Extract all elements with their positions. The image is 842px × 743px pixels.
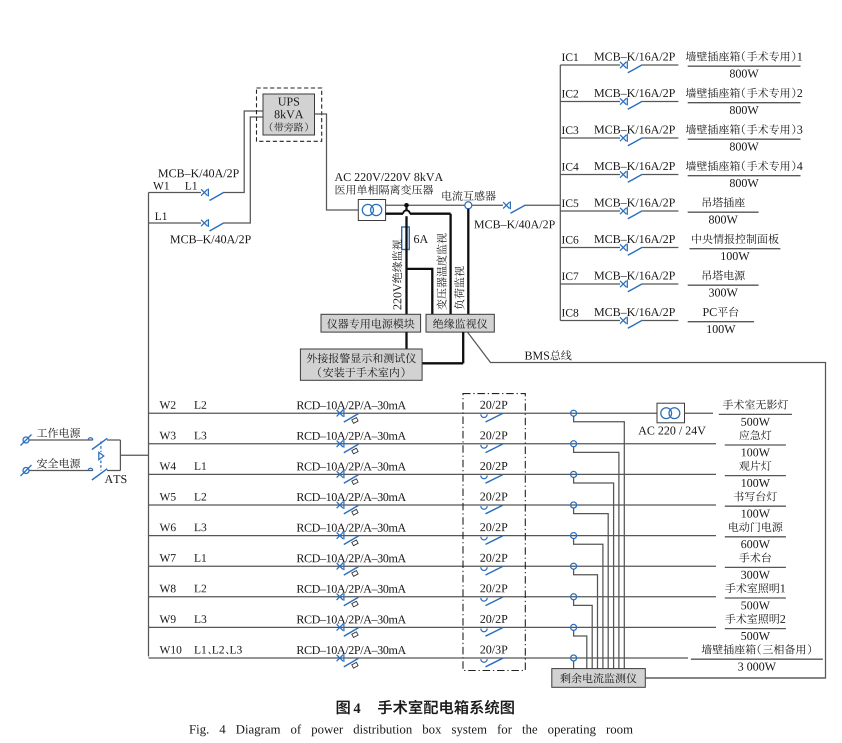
- breaker W3 RCD symbol: [337, 440, 359, 454]
- label RCD-10A/2P/A-30mA (W4): [297, 462, 406, 470]
- load IC2 800W name: [686, 88, 802, 98]
- load W4 power: [742, 479, 770, 487]
- wire IC1 branch: [560, 64, 678, 66]
- load IC8 underline: [688, 321, 754, 323]
- label L1 (W1 phase): [185, 182, 197, 190]
- wire W8 branch: [149, 596, 717, 598]
- breaker Q3 MCB-K/40A/2P symbol: [503, 201, 525, 213]
- label W7: [160, 554, 176, 562]
- load W10 3 000W name: [702, 644, 811, 654]
- breaker W9 RCD symbol: [337, 624, 359, 638]
- terminal safety power source: [21, 465, 32, 476]
- wire alarm box to monitor: [422, 332, 463, 363]
- wire BMS bus: [468, 332, 826, 678]
- label ATS: [105, 475, 127, 483]
- breaker IC3 MCB-K/16A/2P symbol: [620, 134, 642, 146]
- label RCD-10A/2P/A-30mA (W3): [297, 432, 406, 440]
- load IC7 power: [709, 289, 738, 297]
- load W4 100W name: [739, 461, 771, 471]
- breaker IC5 MCB-K/16A/2P symbol: [620, 207, 642, 219]
- label AC 220 / 24V: [638, 427, 705, 435]
- load IC3 800W name: [686, 124, 803, 134]
- load IC4 underline: [688, 175, 801, 177]
- load IC6 underline: [690, 248, 781, 250]
- external alarm display box: [300, 349, 422, 380]
- label AC 220V/220V 8kVA: [335, 173, 443, 182]
- node monitor tap W6: [571, 533, 577, 539]
- label MCB-K/40A/2P (L1): [170, 235, 251, 243]
- label an quan dian yuan (safety power): [37, 458, 80, 468]
- label W2: [160, 401, 176, 409]
- fuse F1 6A body: [402, 227, 410, 250]
- wire IC4 branch: [560, 174, 678, 176]
- load IC3 underline: [688, 138, 801, 140]
- wire monitor to BMS riser: [645, 677, 825, 679]
- label contactor (W2): [480, 401, 507, 409]
- wire 220V insulation monitor vertical: [405, 208, 407, 315]
- transformer T2 AC220/24V box: [657, 403, 685, 423]
- load W10 underline: [691, 658, 823, 660]
- label contactor (W6): [480, 523, 507, 531]
- wire transformer temperature monitor vertical: [449, 214, 451, 315]
- load IC6 power: [721, 252, 749, 260]
- label IC5: [562, 199, 578, 207]
- load W7 power: [741, 571, 770, 579]
- node monitor tap W9: [571, 624, 577, 630]
- label W4: [160, 462, 176, 470]
- label W3: [160, 432, 176, 440]
- load W3 100W name: [739, 430, 771, 440]
- label an zhuang yu shou shu shi nei: [318, 367, 404, 377]
- contactor W9 20/2P symbol: [481, 628, 503, 637]
- label W5: [160, 493, 176, 501]
- label sheng yu dian liu jian ce yi: [560, 673, 636, 683]
- label IC3: [562, 126, 578, 134]
- label W9: [160, 615, 176, 623]
- load IC1 underline: [688, 65, 801, 67]
- label contactor (W8): [480, 584, 507, 592]
- breaker IC4 MCB-K/16A/2P symbol: [620, 171, 642, 183]
- label RCD-10A/2P/A-30mA (W8): [297, 585, 406, 593]
- breaker Q2 MCB-K/40A/2P symbol: [201, 219, 224, 231]
- wire IC3 branch: [560, 137, 678, 139]
- label contactor (W7): [480, 554, 507, 562]
- terminal working power source: [21, 435, 32, 446]
- wire IC7 branch: [560, 283, 678, 285]
- load IC2 underline: [688, 102, 801, 104]
- load W5 power: [742, 510, 770, 518]
- load IC1 800W name: [686, 51, 802, 61]
- label IC1: [562, 53, 578, 61]
- load IC5 power: [709, 216, 738, 224]
- label phase L1、L2、L3 (W10): [194, 646, 241, 654]
- wire W6 branch: [149, 535, 717, 537]
- caption figure 4 english: [189, 724, 632, 736]
- label W6: [160, 523, 176, 531]
- label contactor (W10): [480, 646, 507, 654]
- wire UPS output to isolation transformer: [315, 114, 359, 210]
- load IC1 power: [730, 70, 759, 78]
- load IC7 300W name: [703, 270, 745, 280]
- label (dai pang lu) bypass: [270, 122, 308, 131]
- load IC3 power: [730, 143, 759, 151]
- label RCD-10A/2P/A-30mA (W10): [297, 646, 406, 654]
- load IC5 underline: [688, 211, 759, 213]
- breaker W8 RCD symbol: [337, 593, 359, 607]
- breaker W5 RCD symbol: [337, 501, 359, 515]
- load IC6 100W name: [692, 234, 779, 244]
- caption figure 4 chinese: [337, 700, 514, 715]
- label IC6: [562, 236, 578, 244]
- load W10 power: [738, 663, 776, 671]
- label contactor (W3): [480, 431, 507, 439]
- UPS U1 8kVA box: [263, 94, 315, 135]
- load W2 power: [741, 418, 770, 426]
- wire ATS output to bus: [120, 454, 148, 456]
- label MCB-K/16A/2P (IC2): [594, 89, 675, 97]
- contactor W6 20/2P symbol: [481, 536, 503, 545]
- label wai jie bao jing xian shi he ce shi yi: [307, 353, 416, 363]
- load IC8 power: [707, 325, 735, 333]
- wire W1 branch from bus to breaker: [149, 192, 202, 194]
- load W6 underline: [725, 536, 786, 538]
- node monitor tap W10: [571, 655, 577, 661]
- label RCD-10A/2P/A-30mA (W7): [297, 554, 406, 562]
- label phase L1 (W4): [194, 462, 206, 470]
- ATS switch contact 1: [88, 438, 107, 450]
- ATS output bracket: [107, 440, 120, 471]
- contactor W10 20/2P symbol: [481, 658, 503, 667]
- contactor W3 20/2P symbol: [481, 444, 503, 453]
- load W5 100W name: [734, 491, 777, 501]
- label dian liu hu gan qi (current transformer): [442, 191, 495, 201]
- label fu he jian shi (rotated): [454, 266, 464, 309]
- wire module to alarm box: [405, 332, 407, 349]
- label MCB-K/16A/2P (IC3): [594, 126, 675, 134]
- wire W10 branch: [149, 657, 689, 659]
- label contactor (W9): [480, 615, 507, 623]
- load W4 underline: [725, 475, 786, 477]
- load IC8 100W name: [703, 307, 738, 317]
- breaker IC8 MCB-K/16A/2P symbol: [620, 317, 642, 329]
- label phase L3 (W3): [194, 432, 206, 440]
- load IC7 underline: [688, 284, 759, 286]
- ATS linkage: [99, 442, 104, 471]
- load W7 300W name: [739, 552, 771, 562]
- load W2 500W name: [723, 399, 788, 409]
- label RCD-10A/2P/A-30mA (W5): [297, 493, 406, 501]
- label phase L1 (W7): [194, 554, 206, 562]
- node monitor tap W3: [571, 441, 577, 447]
- label W10: [160, 646, 182, 654]
- label MCB-K/16A/2P (IC7): [594, 272, 675, 280]
- breaker IC1 MCB-K/16A/2P symbol: [620, 61, 642, 73]
- load IC4 800W name: [686, 161, 803, 171]
- label bian ya qi wen du jian shi (rotated): [436, 233, 446, 309]
- label jue yuan jian shi yi: [433, 319, 487, 329]
- load W6 power: [741, 540, 770, 548]
- label phase L2 (W8): [194, 585, 206, 593]
- breaker W2 RCD symbol: [337, 409, 359, 423]
- node monitor tap W4: [571, 471, 577, 477]
- label RCD-10A/2P/A-30mA (W9): [297, 615, 406, 623]
- breaker W10 RCD symbol: [337, 654, 359, 668]
- wire W5 branch: [149, 504, 717, 506]
- breaker IC2 MCB-K/16A/2P symbol: [620, 98, 642, 110]
- wire T2 to load: [685, 412, 714, 414]
- label MCB-K/16A/2P (IC8): [594, 308, 675, 316]
- node monitor tap W8: [571, 594, 577, 600]
- load W9 underline: [725, 628, 786, 630]
- load W8 500W name: [725, 583, 785, 593]
- label MCB-K/16A/2P (IC1): [594, 53, 675, 61]
- load W9 500W name: [725, 614, 785, 624]
- contactor W4 20/2P symbol: [481, 475, 503, 484]
- load IC4 power: [730, 179, 759, 187]
- label MCB-K/40A/2P (main): [474, 220, 555, 228]
- load W8 underline: [725, 597, 786, 599]
- wire IC8 branch: [560, 320, 678, 322]
- label phase L2 (W5): [194, 493, 206, 501]
- wire branch to insulation monitor instrument: [407, 269, 433, 314]
- wire transformer temperature monitor horizontal: [386, 210, 451, 213]
- label W1: [153, 182, 169, 190]
- residual current monitor box: [552, 669, 646, 688]
- label MCB-K/40A/2P (W1): [158, 169, 239, 177]
- label contactor (W5): [480, 493, 507, 501]
- node junction dot on 220V line: [404, 203, 409, 208]
- wire IC distribution bus: [559, 65, 561, 321]
- label yi qi zhuan yong dian yuan mo kuai: [327, 319, 414, 329]
- wire IC5 branch: [560, 210, 678, 212]
- wire W1 to UPS input: [224, 111, 263, 193]
- wire transformer output to MCB: [386, 204, 503, 206]
- transformer T1 box: [358, 200, 385, 221]
- label phase L2 (W2): [194, 401, 206, 409]
- node monitor tap W5: [571, 502, 577, 508]
- contactor W7 20/2P symbol: [481, 566, 503, 575]
- label RCD-10A/2P/A-30mA (W2): [297, 401, 406, 409]
- breaker W6 RCD symbol: [337, 532, 359, 546]
- label MCB-K/16A/2P (IC6): [594, 235, 675, 243]
- load IC2 power: [730, 106, 759, 114]
- load W9 power: [741, 632, 770, 640]
- wire W2 branch: [149, 412, 658, 414]
- label IC2: [562, 90, 578, 98]
- ATS switch contact 2: [88, 468, 107, 480]
- transformer T2 windings: [661, 408, 680, 419]
- current transformer CT1 circle: [465, 202, 472, 209]
- wire W9 branch: [149, 626, 717, 628]
- load W5 underline: [725, 505, 786, 507]
- label yi yong dan xiang ge li bian ya qi: [335, 184, 433, 194]
- load W3 underline: [725, 444, 786, 446]
- instrument power module box: [321, 314, 421, 332]
- wire safety power to ATS: [29, 470, 93, 472]
- label UPS: [278, 98, 299, 106]
- node monitor tap W7: [571, 563, 577, 569]
- wire load monitor vertical from CT: [467, 209, 469, 314]
- breaker W4 RCD symbol: [337, 471, 359, 485]
- wire W4 branch: [149, 473, 717, 475]
- wire working power to ATS: [29, 439, 93, 441]
- label W8: [160, 585, 176, 593]
- wire W7 branch: [149, 565, 717, 567]
- load W3 power: [742, 448, 770, 456]
- label BMS zong xian: [525, 350, 572, 360]
- load W8 power: [741, 601, 770, 609]
- label RCD-10A/2P/A-30mA (W6): [297, 524, 406, 532]
- wire IC2 branch: [560, 101, 678, 103]
- label MCB-K/16A/2P (IC4): [594, 162, 675, 170]
- label IC4: [562, 163, 579, 171]
- load W7 underline: [725, 566, 786, 568]
- label phase L3 (W6): [194, 523, 206, 531]
- wire L1 to UPS output return: [224, 117, 263, 223]
- load IC5 800W name: [703, 197, 745, 207]
- label gong zuo dian yuan (working power): [37, 428, 80, 438]
- wire L1 branch from bus to breaker: [149, 222, 202, 224]
- label IC8: [562, 309, 578, 317]
- label contactor (W4): [480, 462, 507, 470]
- wire main vertical bus: [148, 193, 150, 657]
- contactor W5 20/2P symbol: [481, 505, 503, 514]
- wire MCB to IC bus: [526, 204, 561, 206]
- insulation monitor box: [426, 314, 494, 332]
- label IC7: [562, 272, 579, 280]
- breaker W7 RCD symbol: [337, 562, 359, 576]
- wire W3 branch: [149, 443, 717, 445]
- label 8kVA: [275, 110, 304, 119]
- breaker Q1 MCB-K/40A/2P symbol: [201, 189, 224, 201]
- label MCB-K/16A/2P (IC5): [594, 199, 675, 207]
- wire IC6 branch: [560, 247, 678, 249]
- label 6A: [414, 235, 428, 243]
- label 220V jue yuan jian shi (rotated): [392, 240, 402, 310]
- breaker IC6 MCB-K/16A/2P symbol: [620, 244, 642, 256]
- contactor group dash-dot enclosure: [463, 394, 525, 671]
- label L1 (second branch): [155, 212, 167, 220]
- node monitor tap W2: [571, 410, 577, 416]
- load W2 underline: [719, 413, 792, 415]
- contactor W8 20/2P symbol: [481, 597, 503, 606]
- wires residual current monitor taps: [574, 416, 625, 668]
- label phase L3 (W9): [194, 615, 206, 623]
- UPS bypass dashed enclosure: [257, 88, 322, 141]
- transformer T1 windings: [362, 204, 382, 215]
- load W6 600W name: [729, 522, 782, 532]
- contactor W2 20/2P symbol: [481, 413, 503, 422]
- breaker IC7 MCB-K/16A/2P symbol: [620, 280, 642, 292]
